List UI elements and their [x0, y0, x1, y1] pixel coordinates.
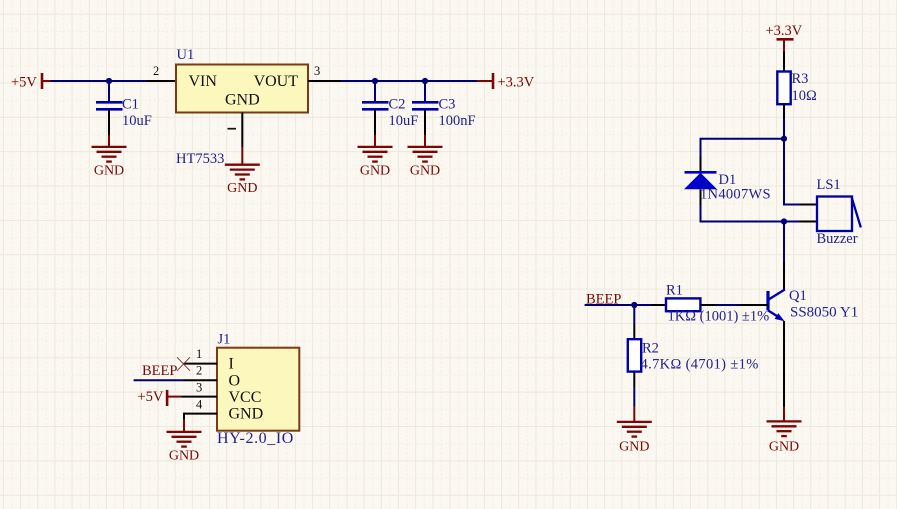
junction at C3 top — [422, 78, 428, 84]
svg-text:HT7533: HT7533 — [176, 151, 224, 167]
resistor R3 — [777, 52, 817, 120]
svg-text:GND: GND — [360, 163, 390, 178]
svg-text:1: 1 — [196, 347, 202, 361]
svg-text:O: O — [229, 372, 241, 389]
ground GND (under C1) — [92, 135, 127, 178]
svg-text:GND: GND — [410, 163, 440, 178]
ground GND (under Q1) — [767, 407, 802, 455]
svg-text:GND: GND — [225, 92, 260, 109]
svg-text:BEEP: BEEP — [142, 363, 177, 379]
svg-text:+5V: +5V — [138, 389, 164, 405]
op-amp U1 body — [176, 47, 308, 113]
pin J1.2 — [184, 364, 218, 381]
svg-text:4: 4 — [196, 398, 203, 412]
svg-text:3: 3 — [314, 64, 320, 78]
wire rail down to buzzer upper pin — [784, 140, 800, 205]
pin U1.1 GND (vertical) — [228, 113, 243, 148]
ground GND (under U1) — [225, 147, 260, 196]
svg-text:SS8050 Y1: SS8050 Y1 — [790, 305, 858, 321]
power port +5V (at J1.3) — [138, 389, 182, 406]
svg-text:VIN: VIN — [189, 73, 218, 90]
svg-text:100nF: 100nF — [439, 113, 476, 129]
wire R3 to junction — [783, 119, 785, 139]
svg-text:1N4007WS: 1N4007WS — [700, 187, 771, 203]
svg-text:10uF: 10uF — [122, 113, 152, 129]
svg-text:VCC: VCC — [229, 389, 262, 406]
wire R1 to Q1 base — [716, 304, 741, 306]
svg-text:GND: GND — [229, 406, 264, 423]
pin LS1 upper — [800, 204, 817, 206]
svg-text:R1: R1 — [666, 283, 683, 299]
svg-text:1KΩ (1001) ±1%: 1KΩ (1001) ±1% — [668, 309, 770, 325]
power port +3.3V (top) — [766, 23, 803, 52]
buzzer LS1 — [817, 177, 861, 247]
wire BEEP to R1 — [585, 304, 651, 306]
junction (R2 top) — [631, 302, 637, 308]
capacitor C2 — [362, 81, 418, 135]
pin J1.4 — [184, 398, 217, 414]
capacitor C3 — [412, 81, 476, 135]
pin J1.1 — [184, 347, 218, 364]
wire +5V rail to U1 — [51, 80, 147, 82]
pin U1.3 VOUT — [308, 64, 341, 81]
connector J1 body — [217, 332, 299, 447]
svg-text:GND: GND — [227, 181, 257, 196]
power port +5V (left) — [11, 73, 51, 91]
ground GND (under C2) — [358, 135, 393, 178]
transistor Q1 — [768, 288, 858, 321]
svg-text:R3: R3 — [792, 71, 809, 87]
svg-text:GND: GND — [94, 163, 124, 178]
resistor R2 — [628, 324, 759, 387]
wire VOUT rail — [341, 80, 477, 82]
svg-text:10uF: 10uF — [389, 113, 419, 129]
pin Q1 emitter down — [783, 321, 785, 407]
svg-text:2: 2 — [196, 364, 202, 378]
wire junction down to R2 — [633, 305, 635, 324]
wire R2 to ground — [633, 387, 635, 407]
power port +3.3V (right of rail) — [477, 73, 535, 91]
ground GND (under C3) — [408, 135, 443, 178]
pin LS1 lower — [800, 221, 817, 223]
svg-text:LS1: LS1 — [817, 177, 841, 193]
svg-text:J1: J1 — [218, 332, 231, 348]
svg-text:10Ω: 10Ω — [792, 88, 818, 104]
pin U1.2 VIN — [146, 64, 176, 81]
pin Q1 base — [740, 304, 768, 306]
svg-text:U1: U1 — [177, 47, 195, 63]
junction (lower row) — [781, 218, 787, 224]
svg-text:+3.3V: +3.3V — [498, 75, 535, 91]
svg-text:GND: GND — [619, 439, 649, 454]
ground GND (under J1) — [167, 420, 202, 464]
svg-text:HY-2.0_IO: HY-2.0_IO — [217, 430, 294, 447]
capacitor C1 — [96, 81, 152, 135]
svg-text:+5V: +5V — [11, 75, 37, 91]
svg-text:Q1: Q1 — [789, 288, 807, 304]
svg-text:C1: C1 — [122, 96, 139, 112]
svg-text:GND: GND — [769, 439, 799, 454]
svg-text:4.7KΩ (4701) ±1%: 4.7KΩ (4701) ±1% — [641, 357, 759, 373]
svg-text:I: I — [229, 356, 234, 373]
ground GND (under R2) — [617, 407, 652, 455]
junction (R3 bottom / D1 cathode) — [781, 136, 787, 142]
svg-text:GND: GND — [169, 449, 199, 464]
svg-text:C3: C3 — [439, 96, 456, 112]
svg-text:+3.3V: +3.3V — [766, 23, 803, 39]
svg-text:3: 3 — [196, 380, 202, 394]
wire junction to D1 — [701, 139, 785, 157]
diode D1 — [684, 157, 771, 205]
wire BEEP to J1.2 — [134, 379, 184, 381]
resistor R1 — [651, 283, 769, 325]
pin J1.3 — [182, 380, 218, 396]
junction at C1 top — [106, 78, 112, 84]
pin Q1 collector — [783, 262, 785, 290]
svg-text:D1: D1 — [719, 172, 737, 188]
wire J1.4 down to ground — [183, 413, 185, 420]
svg-text:VOUT: VOUT — [254, 73, 299, 90]
svg-text:R2: R2 — [642, 341, 659, 357]
no-connect X on pin 1 — [177, 357, 190, 371]
svg-text:Buzzer: Buzzer — [817, 231, 858, 247]
wire D1 anode to lower row — [701, 205, 801, 222]
svg-text:2: 2 — [153, 64, 159, 78]
wire lower row down to Q1 collector — [783, 222, 785, 263]
svg-text:C2: C2 — [389, 96, 406, 112]
junction at C2 top — [372, 78, 378, 84]
